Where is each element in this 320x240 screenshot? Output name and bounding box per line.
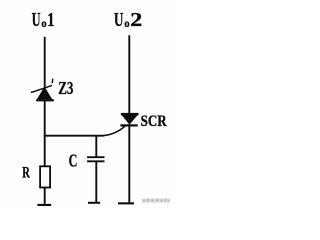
wire: SCR cathode down to terminal [128, 126, 130, 203]
svg-text:C: C [69, 150, 78, 170]
svg-text:1: 1 [47, 9, 54, 31]
wire: resistor to terminal [44, 188, 46, 205]
svg-text:U: U [32, 9, 41, 31]
zener diode Z3 : bent cathode bar [31, 85, 52, 92]
wire: gate lead curving to SCR [103, 126, 125, 136]
capacitor C : bottom lead [95, 162, 97, 203]
terminal bar under R [37, 204, 51, 206]
SCR : triangle pointing down [123, 115, 137, 124]
wire: horizontal node wire [44, 135, 104, 137]
SCR : cathode bar [120, 124, 137, 126]
svg-text:Z3: Z3 [58, 78, 73, 98]
capacitor C : top lead [95, 136, 97, 157]
SCR : anode-side bar [121, 113, 139, 116]
svg-text:o: o [124, 16, 129, 30]
node Uo1 label [32, 9, 55, 31]
svg-text:SCR: SCR [141, 113, 168, 130]
terminal bar under C [88, 202, 100, 204]
zener diode Z3 : anode base bar [36, 99, 54, 101]
capacitor C : plates [87, 156, 104, 158]
node Uo2 label [114, 9, 142, 31]
svg-text:R: R [22, 163, 30, 182]
wire: Uo1 down to zener Z3 [44, 37, 46, 87]
svg-text:2: 2 [130, 9, 142, 31]
svg-text:U: U [114, 9, 123, 31]
zener diode Z3 : cathode bar right hook [51, 79, 53, 84]
terminal bar under SCR [118, 202, 134, 204]
wire: Uo2 down to SCR anode [128, 35, 130, 113]
resistor R [40, 166, 50, 187]
svg-text:o: o [41, 16, 46, 30]
wire: zener anode down to node A [44, 101, 46, 166]
watermark [142, 198, 169, 202]
zener diode Z3 : triangle (anode, pointing up) [38, 87, 52, 99]
